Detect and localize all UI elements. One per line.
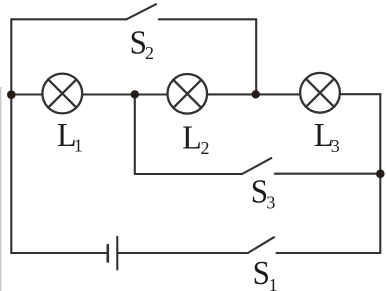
svg-text:1: 1 [269, 275, 278, 291]
wire top-right vertical drop [255, 19, 257, 94]
lamp L1 [42, 74, 82, 114]
svg-text:2: 2 [201, 138, 210, 158]
node A junction dot [7, 90, 16, 99]
svg-text:3: 3 [266, 193, 275, 213]
wire S3 branch right segment [275, 173, 381, 175]
wire top left segment [11, 18, 126, 20]
node C junction dot [252, 90, 260, 98]
wire bottom right segment [277, 252, 381, 254]
node B junction dot [131, 90, 139, 98]
wire S3 branch left segment [135, 173, 242, 175]
switch S3 [242, 158, 271, 174]
node D junction dot [376, 170, 385, 179]
lamp L2 [168, 74, 208, 114]
svg-text:3: 3 [331, 136, 340, 156]
label S2 [130, 24, 154, 63]
lamp L3 [300, 73, 340, 113]
wire bottom left segment [11, 252, 107, 254]
svg-text:S: S [251, 174, 268, 211]
switch S1 [248, 237, 274, 253]
battery cell [108, 237, 118, 270]
wire bus node A to L1 [11, 93, 42, 95]
wire left vertical [10, 19, 12, 253]
label L2 [182, 120, 209, 158]
label L1 [57, 117, 83, 155]
switch S2 [126, 4, 156, 19]
svg-text:1: 1 [74, 136, 83, 156]
wire L1 to L2 [82, 93, 167, 95]
svg-text:L: L [182, 120, 202, 157]
wire S3 branch vertical [134, 94, 136, 174]
label S3 [251, 174, 276, 213]
wire L3 to right corner [340, 93, 380, 95]
label L3 [314, 117, 340, 156]
wire battery to S1 [117, 252, 248, 254]
wire right vertical [379, 94, 381, 252]
wire L2 to L3 [207, 93, 300, 95]
scan edge artifact [0, 87, 2, 291]
label S1 [253, 255, 278, 291]
svg-text:2: 2 [145, 43, 154, 63]
svg-text:S: S [253, 255, 270, 291]
wire top right segment [159, 18, 256, 20]
